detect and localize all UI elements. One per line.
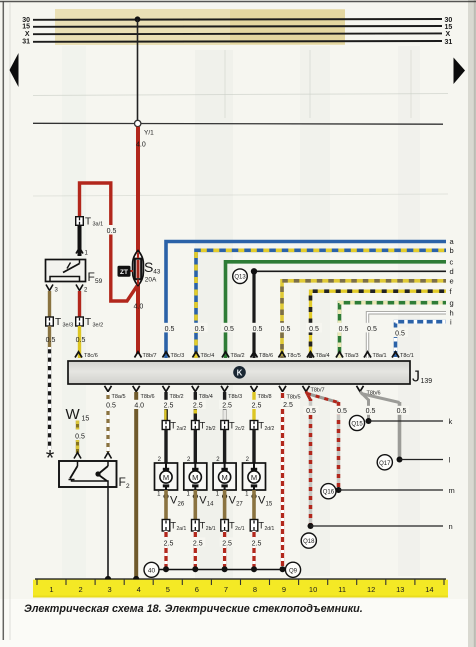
svg-text:7: 7	[224, 585, 228, 594]
terminal 40	[144, 562, 159, 577]
svg-text:0.5: 0.5	[337, 408, 347, 415]
wire red loop from S43 to F59	[80, 183, 139, 301]
svg-text:T8c/3: T8c/3	[171, 353, 185, 359]
window motor V15	[243, 463, 266, 490]
svg-text:0.5: 0.5	[46, 337, 56, 344]
svg-text:2.5: 2.5	[283, 402, 293, 409]
svg-text:12: 12	[367, 585, 375, 594]
svg-text:T8c/4: T8c/4	[201, 353, 215, 359]
left direction arrow	[10, 53, 19, 87]
bus labels left	[22, 17, 30, 46]
svg-text:Q17: Q17	[379, 461, 391, 467]
wire yellow T8b/8 to V15	[252, 392, 255, 422]
svg-text:10: 10	[309, 585, 317, 594]
junction dot on bus 30	[135, 16, 141, 22]
node k line	[366, 418, 372, 424]
wire red/white striped below T2a/1	[164, 531, 167, 569]
pin 2 of F59	[76, 285, 83, 291]
svg-text:T8b/4: T8b/4	[199, 394, 213, 400]
svg-text:T8b/7: T8b/7	[311, 387, 325, 393]
wire red/white striped below T2d/1	[252, 531, 255, 569]
wire i blue/white T8c/1	[396, 322, 447, 358]
svg-text:0.5: 0.5	[165, 326, 175, 333]
svg-text:2: 2	[79, 585, 83, 594]
svg-text:0.5: 0.5	[281, 326, 291, 333]
svg-text:M: M	[163, 473, 169, 482]
svg-text:2.5: 2.5	[252, 402, 262, 409]
svg-text:4: 4	[137, 585, 141, 594]
svg-text:2a/2: 2a/2	[177, 426, 187, 432]
svg-text:2.5: 2.5	[164, 402, 174, 409]
terminal Q13	[233, 269, 248, 284]
svg-text:F: F	[88, 270, 95, 284]
wire jog to l branch	[361, 394, 400, 403]
svg-text:15: 15	[266, 502, 273, 508]
wire d black T8b/6	[252, 271, 255, 358]
node m line	[336, 487, 342, 493]
svg-text:2c/2: 2c/2	[235, 426, 245, 432]
wire a blue T8c/3	[166, 242, 446, 359]
svg-text:43: 43	[153, 269, 161, 276]
svg-text:T8a/2: T8a/2	[231, 353, 245, 359]
svg-text:Q9: Q9	[289, 568, 298, 574]
svg-text:4.0: 4.0	[136, 142, 146, 149]
svg-text:3: 3	[108, 585, 112, 594]
svg-text:T8a/4: T8a/4	[316, 353, 330, 359]
wire brown from F59 pin 3	[48, 291, 51, 318]
connector T3a/1	[76, 217, 84, 226]
svg-text:k: k	[449, 417, 453, 426]
wire black from F2 to ground rail	[107, 487, 109, 579]
svg-text:2: 2	[126, 483, 130, 490]
svg-text:X: X	[446, 31, 451, 38]
svg-text:0.5: 0.5	[309, 326, 319, 333]
svg-text:T8c/1: T8c/1	[400, 353, 414, 359]
svg-text:4.0: 4.0	[134, 304, 144, 311]
wire black/white striped to ground *	[48, 347, 51, 449]
wire red/white striped below T2b/1	[194, 531, 197, 569]
pin into F2 left	[74, 453, 81, 459]
svg-text:d: d	[450, 267, 454, 276]
svg-text:W: W	[66, 406, 81, 423]
svg-text:0.5: 0.5	[253, 326, 263, 333]
svg-text:0.5: 0.5	[76, 337, 86, 344]
pin labels bottom of J139	[112, 387, 381, 400]
node letters a-i	[450, 237, 455, 326]
svg-text:6: 6	[195, 585, 199, 594]
svg-text:2.5: 2.5	[252, 541, 262, 548]
connector T2a/1	[162, 520, 170, 532]
ground link line between terminal 40 and Q9	[159, 569, 286, 571]
svg-text:n: n	[449, 522, 453, 531]
terminal Q9	[285, 562, 300, 577]
svg-text:h: h	[450, 309, 454, 318]
svg-text:m: m	[449, 486, 455, 495]
svg-text:2a/1: 2a/1	[177, 526, 187, 532]
wire c green T8a/2	[226, 262, 447, 358]
svg-text:14: 14	[425, 585, 433, 594]
svg-text:T8b/6: T8b/6	[259, 353, 273, 359]
svg-text:2.5: 2.5	[164, 541, 174, 548]
terminal Q18	[301, 533, 316, 548]
pin 3 of F59	[46, 285, 53, 291]
svg-text:40: 40	[148, 567, 156, 574]
earth rail above current track band	[35, 578, 446, 580]
switch F59	[46, 260, 86, 282]
wire black to motor V15	[252, 430, 255, 464]
svg-text:2b/1: 2b/1	[206, 526, 216, 532]
wire f yellow/black T8a/4	[311, 291, 447, 358]
wire grey to node l	[398, 402, 402, 460]
svg-text:b: b	[450, 246, 454, 255]
svg-text:0.5: 0.5	[106, 402, 116, 409]
terminal Q16	[321, 484, 336, 499]
wire brown/yellow from W15	[76, 421, 79, 430]
wire b blue/yellow T8c/4	[196, 250, 446, 358]
svg-text:5: 5	[166, 585, 170, 594]
window motor V26	[155, 463, 178, 490]
wire black to motor V26	[164, 430, 167, 464]
svg-text:14: 14	[207, 502, 214, 508]
terminal Q15	[349, 415, 364, 430]
wire black T8b/4 to V14	[194, 392, 197, 422]
wire grey/red striped to node n	[309, 399, 313, 526]
svg-text:0.5: 0.5	[75, 434, 85, 441]
label ZT	[131, 270, 134, 272]
wire yellow to T8c/6	[78, 326, 81, 358]
svg-text:0.5: 0.5	[224, 326, 234, 333]
bus bar 30	[33, 18, 442, 21]
svg-text:S: S	[144, 259, 153, 275]
svg-text:M: M	[251, 473, 257, 482]
svg-text:2d/2: 2d/2	[265, 426, 275, 432]
svg-text:T: T	[85, 317, 91, 328]
svg-text:15: 15	[22, 24, 30, 31]
svg-text:2.5: 2.5	[193, 402, 203, 409]
dot of T8b/5 wire	[280, 566, 286, 572]
switch F2	[59, 461, 117, 487]
wire brown below T3e/3	[48, 326, 51, 347]
connector T2b/2	[192, 421, 200, 430]
svg-text:T8b/2: T8b/2	[170, 394, 184, 400]
wire brown/white striped T8a/5 to F2	[106, 392, 109, 452]
connector T2c/1	[221, 520, 229, 532]
svg-text:27: 27	[236, 502, 243, 508]
svg-text:M: M	[192, 473, 198, 482]
svg-text:0.5: 0.5	[397, 408, 407, 415]
svg-text:26: 26	[178, 502, 185, 508]
svg-text:0.5: 0.5	[107, 228, 117, 235]
connector T2d/1	[250, 520, 258, 532]
svg-text:Электрическая схема 18. Электр: Электрическая схема 18. Электрические ст…	[24, 603, 363, 615]
wire black to motor V14	[194, 430, 197, 464]
wire e grey/yellow T8c/5	[282, 281, 446, 358]
wire red/white striped T8b/5	[281, 392, 284, 569]
wire brown 4.0 ground from T8b/6	[134, 392, 138, 579]
relay symbol K in J139	[233, 366, 246, 379]
svg-text:T: T	[55, 317, 61, 328]
wire red main feed	[136, 127, 140, 253]
window motor V27	[213, 463, 236, 490]
wire grey to node k	[367, 399, 370, 421]
current track numbers	[49, 585, 433, 594]
svg-text:11: 11	[338, 585, 346, 594]
fuse S43 20A	[133, 251, 144, 286]
svg-text:3e/2: 3e/2	[93, 323, 104, 329]
svg-text:T8b/3: T8b/3	[228, 394, 242, 400]
pin labels top of J139	[84, 353, 414, 359]
connector T2c/2	[221, 421, 229, 430]
svg-text:31: 31	[445, 39, 453, 46]
svg-text:T: T	[85, 217, 91, 228]
svg-text:*: *	[46, 446, 55, 471]
connector T2d/2	[250, 421, 258, 430]
svg-text:J: J	[412, 369, 420, 386]
wire grey/red striped to node m	[337, 402, 341, 490]
pin 1 of F59	[76, 248, 83, 254]
svg-text:T8c/6: T8c/6	[84, 353, 98, 359]
svg-text:139: 139	[421, 378, 433, 385]
svg-text:F: F	[119, 475, 126, 489]
wire black T3a/1 to F59	[78, 222, 82, 256]
svg-text:13: 13	[396, 585, 404, 594]
bus bar 31	[33, 40, 442, 43]
connector T2a/2	[162, 421, 170, 430]
ground dot of brown wire	[133, 576, 139, 582]
svg-text:31: 31	[22, 39, 30, 46]
connector pins into top of J139	[75, 352, 399, 358]
node n line	[308, 523, 314, 529]
wire g green/white T8a/3	[340, 303, 447, 358]
connector T2b/1	[192, 520, 200, 532]
svg-text:Q13: Q13	[234, 275, 246, 281]
bus labels right	[445, 17, 453, 46]
wire jog grey from T8b/6	[360, 392, 369, 401]
svg-text:e: e	[450, 277, 454, 286]
wire black to motor V27	[223, 430, 226, 464]
wire h white T8a/1	[368, 313, 447, 358]
svg-text:9: 9	[282, 585, 286, 594]
current track band	[33, 580, 448, 598]
svg-text:2.5: 2.5	[222, 402, 232, 409]
svg-text:Q15: Q15	[351, 422, 363, 428]
wire brown below V27	[223, 490, 227, 520]
svg-text:Q16: Q16	[323, 490, 335, 496]
connector pins out of bottom of J139	[105, 386, 364, 392]
svg-text:0.5: 0.5	[195, 326, 205, 333]
wire size labels 0.5 row	[162, 323, 409, 338]
svg-text:2.5: 2.5	[193, 541, 203, 548]
svg-text:30: 30	[445, 17, 453, 24]
svg-text:T8a/3: T8a/3	[345, 353, 359, 359]
svg-text:3e/3: 3e/3	[63, 323, 74, 329]
wire black T8b/2 to V26	[164, 392, 167, 422]
svg-text:T8b/6: T8b/6	[141, 394, 155, 400]
right direction arrow	[454, 58, 466, 85]
connector T3e/3	[46, 317, 54, 326]
svg-text:0.5: 0.5	[367, 326, 377, 333]
pin into F2 right	[105, 453, 112, 459]
wire red below fuse	[136, 283, 140, 354]
bus bar X	[33, 32, 442, 35]
wire label 0.5	[103, 225, 120, 235]
wire from bus 30 down to node Y/1	[137, 19, 139, 120]
svg-text:3a/1: 3a/1	[93, 222, 104, 228]
svg-text:T8a/1: T8a/1	[373, 353, 387, 359]
wire jog red from T8b/7	[306, 392, 311, 401]
wire brown below V14	[194, 490, 198, 520]
svg-text:15: 15	[82, 416, 90, 423]
wire red/white striped below T2c/1	[223, 531, 226, 569]
horizontal reference line	[33, 122, 443, 125]
svg-text:2b/2: 2b/2	[206, 426, 216, 432]
svg-text:2c/1: 2c/1	[235, 526, 245, 532]
svg-text:20A: 20A	[145, 277, 157, 284]
svg-text:0.5: 0.5	[395, 331, 405, 338]
svg-text:c: c	[450, 258, 454, 267]
window motor V14	[184, 463, 207, 490]
connector T3e/2	[76, 317, 84, 326]
svg-text:ZT: ZT	[120, 269, 128, 276]
svg-text:4.0: 4.0	[134, 402, 144, 409]
svg-text:X: X	[25, 31, 30, 38]
svg-text:T8b/5: T8b/5	[287, 394, 301, 400]
svg-text:Y/1: Y/1	[144, 130, 154, 137]
bus bar 15	[33, 25, 442, 28]
wire brown below V15	[252, 490, 256, 520]
wire black T8b/3 to V27	[223, 392, 226, 422]
svg-text:1: 1	[49, 585, 53, 594]
svg-text:15: 15	[445, 24, 453, 31]
svg-text:T8b/7: T8b/7	[143, 353, 157, 359]
svg-text:0.5: 0.5	[339, 326, 349, 333]
svg-text:Q18: Q18	[303, 539, 315, 545]
node l line	[397, 457, 403, 463]
wire size labels below J139	[103, 400, 409, 415]
svg-text:2d/1: 2d/1	[265, 526, 275, 532]
node Y/1	[135, 120, 141, 126]
svg-text:0.5: 0.5	[306, 408, 316, 415]
svg-text:59: 59	[95, 278, 103, 285]
svg-text:T8a/5: T8a/5	[112, 394, 126, 400]
svg-text:T8b/8: T8b/8	[258, 394, 272, 400]
svg-text:M: M	[221, 473, 227, 482]
wire red from F59 pin 2	[78, 291, 81, 318]
node on wire d	[251, 268, 257, 274]
wire brown below V26	[164, 490, 168, 520]
svg-text:0.5: 0.5	[366, 408, 376, 415]
svg-text:T8c/5: T8c/5	[287, 353, 301, 359]
svg-text:g: g	[450, 299, 454, 308]
svg-text:K: K	[237, 368, 243, 377]
svg-text:8: 8	[253, 585, 257, 594]
terminal Q17	[377, 455, 392, 470]
svg-text:2.5: 2.5	[222, 541, 232, 548]
wire jog to m branch	[307, 394, 339, 403]
